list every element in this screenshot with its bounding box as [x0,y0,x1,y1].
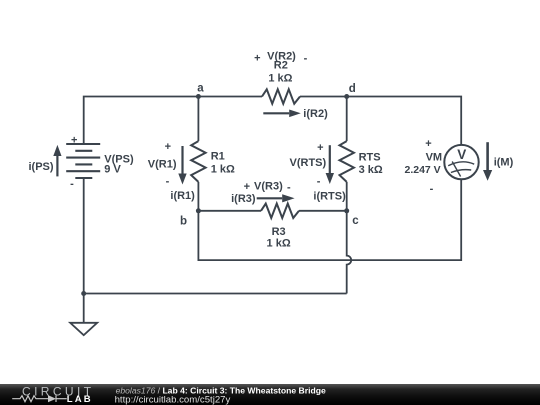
wire battery minus down to junction [83,178,85,294]
wire RTS to node c [346,182,348,211]
svg-text:VM: VM [426,151,443,163]
label V(R2) plus-minus [254,50,307,64]
label VM plus [425,138,431,150]
CircuitLab logo squiggle resistor-diode [12,395,66,402]
current arrow i(R2) [263,110,301,118]
svg-text:R3: R3 [272,226,286,238]
label i(RTS) [313,191,346,203]
current arrow i(R3) [257,194,295,202]
label VM minus [430,183,434,195]
svg-text:+: + [71,134,77,146]
voltage arrow V(R1) [178,146,186,185]
svg-text:-: - [317,176,321,188]
label V(R3) plus-minus row [244,180,291,193]
CircuitLab logo wordmark CIRCUIT [22,384,94,398]
wire node a down to R1 [197,97,199,142]
node d [344,83,356,99]
label R2 [274,60,288,72]
svg-text:-: - [70,178,74,190]
bottom wire junction to node c branch [84,293,347,295]
svg-text:i(R1): i(R1) [170,190,195,202]
wire R3 to node c [299,210,347,212]
wire node c down with hop over b wire [347,211,352,294]
svg-text:i(M): i(M) [494,157,514,169]
svg-text:+: + [317,142,323,154]
label VM [426,151,443,163]
label RTS value 3 kOhm [359,164,383,176]
svg-text:c: c [352,215,359,227]
label R2 value 1 kOhm [268,73,292,85]
svg-text:RTS: RTS [359,152,381,164]
svg-text:1 kΩ: 1 kΩ [267,237,291,249]
label V(R1) [148,159,177,171]
wire node d to top-right corner [300,97,461,146]
node c [344,208,359,227]
label i(M) [494,157,514,169]
svg-text:V(R1): V(R1) [148,159,177,171]
svg-text:LAB: LAB [67,394,93,405]
svg-text:3 kΩ: 3 kΩ [359,164,383,176]
svg-text:+: + [425,138,431,150]
wire top-left from battery + to node a [84,97,262,145]
label i(PS) [29,161,54,173]
battery plus sign [71,134,77,146]
svg-text:d: d [349,83,356,95]
svg-text:i(RTS): i(RTS) [313,191,346,203]
label i(R3) [231,193,256,205]
wire node b down and right to voltmeter bottom [198,179,461,260]
svg-text:+: + [165,141,171,153]
label 9 V [104,164,121,176]
svg-text:-: - [166,176,170,188]
voltmeter VM circle [444,145,478,179]
svg-text:2.247 V: 2.247 V [404,164,440,176]
node b [180,208,201,227]
label V(R1) plus [165,141,171,153]
svg-text:i(PS): i(PS) [29,161,54,173]
svg-text:R2: R2 [274,60,288,72]
voltmeter V letter [457,147,466,162]
current arrow i(PS) [53,145,61,177]
svg-text:i(R3): i(R3) [231,193,256,205]
footer url line [115,394,231,405]
ground symbol triangle [70,323,97,335]
svg-text:b: b [180,215,187,227]
svg-text:-: - [430,183,434,195]
resistor R3 zigzag [261,204,299,218]
wire ground stem [83,294,85,323]
svg-text:+: + [244,181,250,193]
svg-text:R1: R1 [211,151,225,163]
svg-text:9 V: 9 V [104,164,121,176]
CircuitLab logo wordmark LAB [67,394,93,405]
voltage arrow V(RTS) [326,145,334,184]
current arrow i(M) [483,142,492,181]
wire R1 to node b [197,182,199,211]
footer bar background [0,384,540,405]
label V(RTS) plus [317,142,323,154]
svg-text:V: V [457,147,466,162]
wire node b to R3 [198,210,261,212]
label i(R2) [303,108,328,120]
svg-text:-: - [304,53,308,65]
label R1 value 1 kOhm [211,164,235,176]
node a [196,82,204,99]
label R1 [211,151,225,163]
wire node d down to RTS [346,97,348,142]
label V(RTS) [290,157,327,169]
svg-text:+: + [254,52,260,64]
label R3 [272,226,286,238]
label V(PS) [104,153,134,165]
junction node at ground [81,291,86,296]
svg-text:-: - [287,181,291,193]
resistor RTS zigzag [340,141,354,182]
label R3 value 1 kOhm [267,237,291,249]
svg-text:V(RTS): V(RTS) [290,157,327,169]
svg-text:V(R3): V(R3) [254,180,283,192]
label RTS [359,152,381,164]
label i(R1) [170,190,195,202]
label V(R1) minus [166,176,170,188]
svg-text:1 kΩ: 1 kΩ [211,164,235,176]
CircuitLab logo diode triangle [48,395,56,402]
resistor R1 zigzag [191,141,205,182]
footer title line [116,385,326,395]
svg-text:i(R2): i(R2) [303,108,328,120]
battery minus sign [70,178,74,190]
svg-text:1 kΩ: 1 kΩ [268,73,292,85]
label VM value 2.247 V [404,164,440,176]
svg-text:http://circuitlab.com/c5tj27y: http://circuitlab.com/c5tj27y [115,394,231,405]
svg-text:a: a [197,82,204,94]
label V(RTS) minus [317,176,321,188]
voltmeter meter arcs and needle [448,162,474,177]
resistor R2 zigzag [262,89,300,103]
battery PS multi-cell plates [66,144,100,178]
